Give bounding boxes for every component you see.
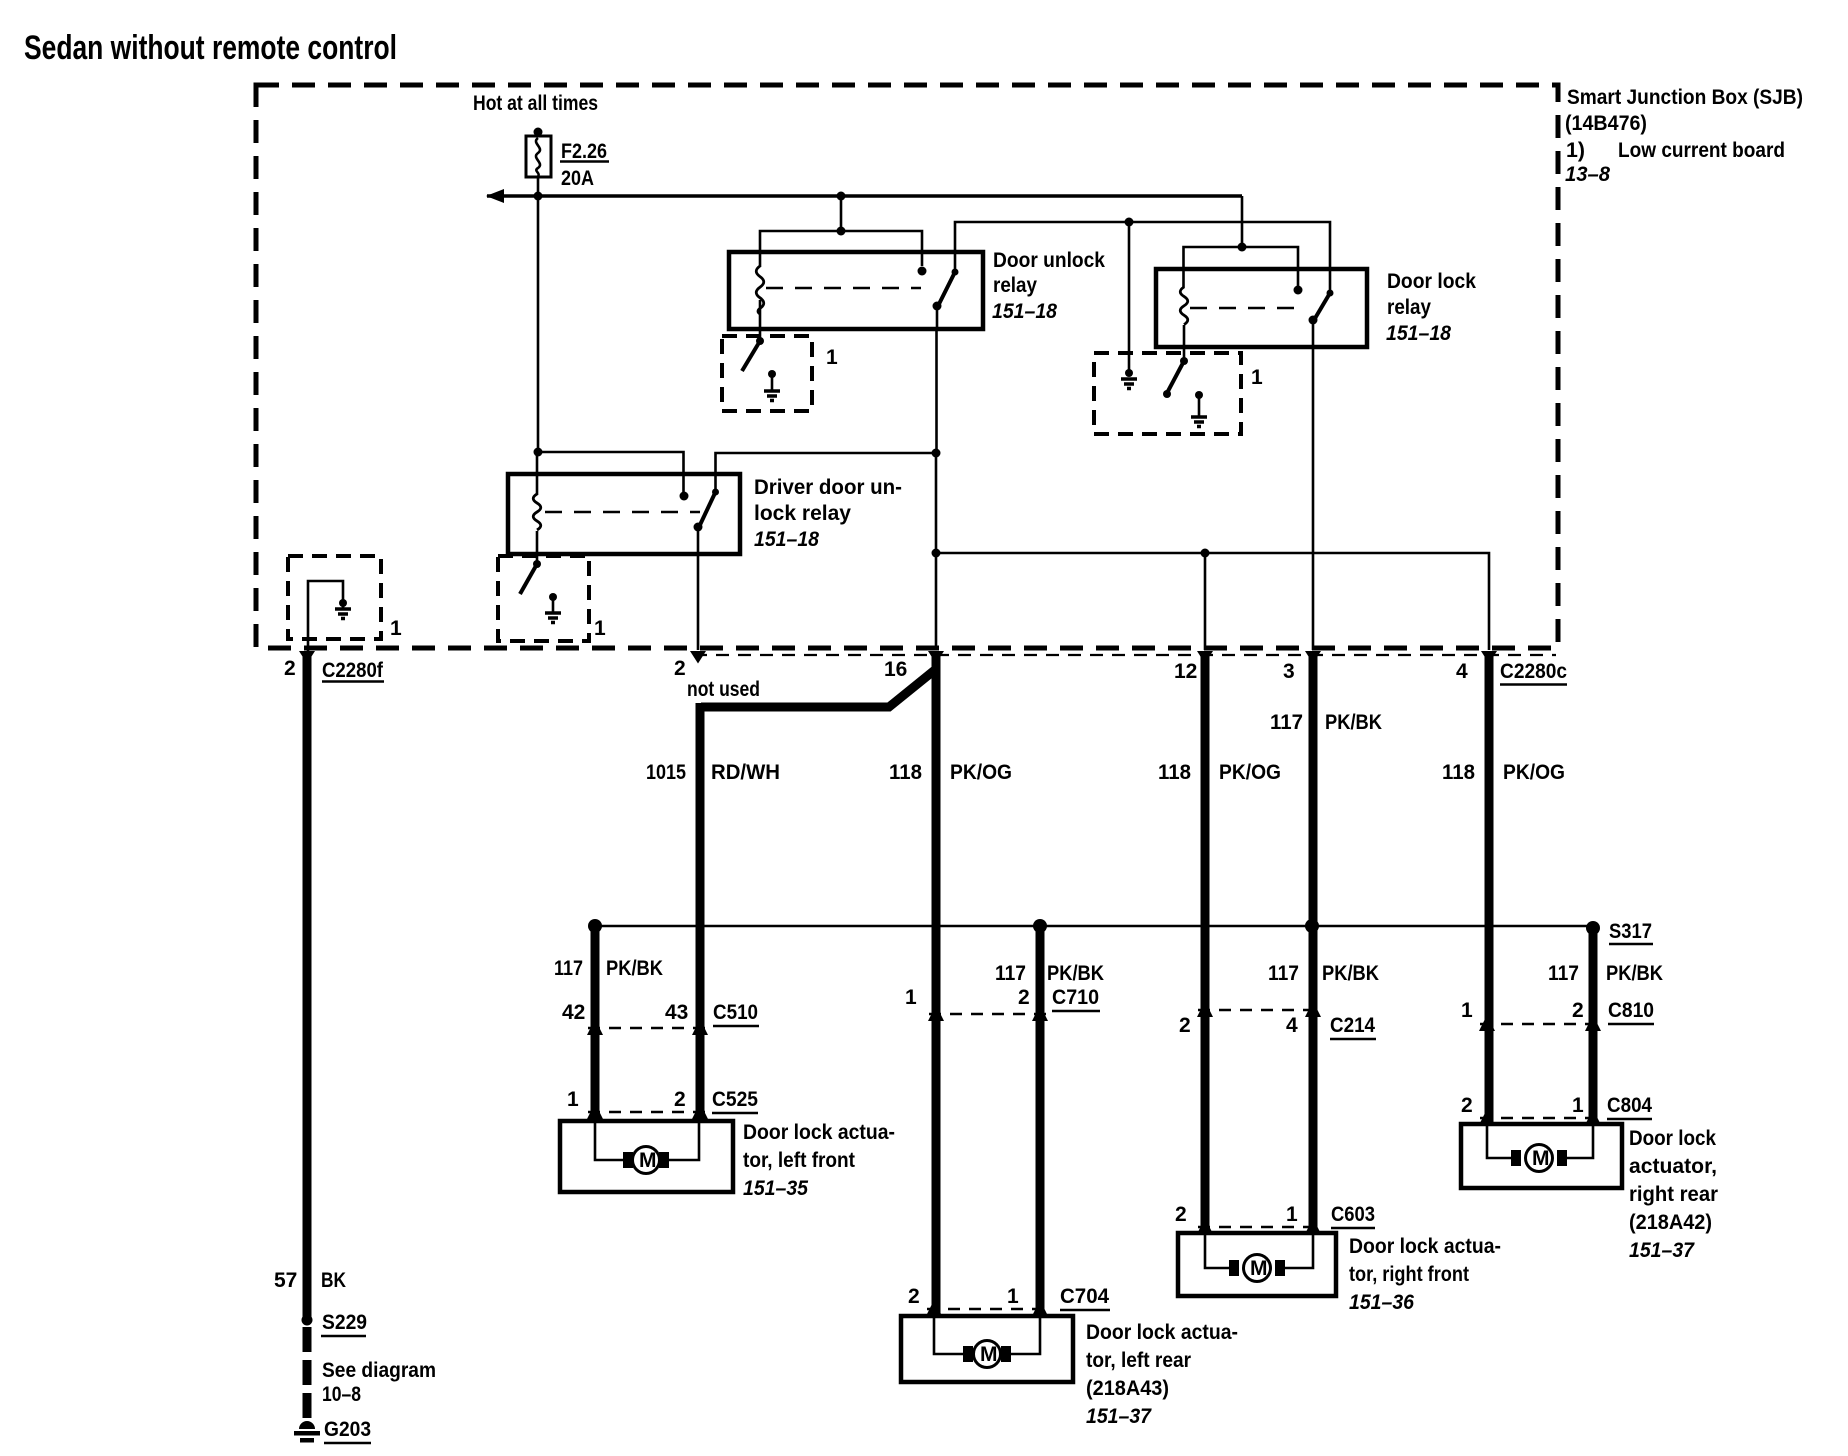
- label: 117 PK/BK (C214 leg): [1268, 962, 1379, 985]
- unlock relay fixed contact: [918, 267, 927, 276]
- svg-text:not used: not used: [687, 678, 760, 701]
- svg-text:BK: BK: [321, 1269, 346, 1292]
- svg-text:1: 1: [905, 986, 917, 1009]
- ground contact in box 1 (unlock): [764, 370, 780, 401]
- svg-text:57: 57: [274, 1269, 297, 1292]
- label: 1 (driver box): [594, 617, 606, 640]
- svg-text:G203: G203: [324, 1418, 371, 1441]
- actuator: Door lock actuator right rear: [1461, 1124, 1622, 1188]
- label: S317: [1609, 920, 1653, 944]
- wire: B+ bus from fuse, arrow to left: [486, 189, 1242, 203]
- label: 1 (unlock box): [826, 346, 838, 369]
- lock relay switch arm: [1309, 290, 1334, 325]
- driver relay switch arm: [694, 489, 720, 532]
- svg-text:13–8: 13–8: [1565, 163, 1610, 186]
- wire: fuse feed down to driver relay: [537, 196, 540, 452]
- label: Door lock relay 151-18: [1386, 270, 1476, 345]
- svg-text:1015: 1015: [646, 761, 686, 784]
- svg-text:relay: relay: [993, 274, 1037, 297]
- dashed box 1 under lock relay: [1094, 353, 1241, 434]
- junction pin16 net corner: [932, 449, 941, 458]
- svg-text:Door lock: Door lock: [1629, 1127, 1716, 1150]
- svg-text:Hot at all times: Hot at all times: [473, 92, 598, 115]
- svg-text:151–18: 151–18: [754, 528, 819, 551]
- svg-text:tor, left rear: tor, left rear: [1086, 1349, 1191, 1372]
- svg-text:4: 4: [1286, 1014, 1298, 1037]
- svg-text:2: 2: [284, 657, 296, 680]
- junction splice at wire G: [1305, 919, 1319, 933]
- wire: 118 PK/OG pin 12 down to right front actuator: [1201, 655, 1210, 1233]
- coil of door lock relay: [1180, 287, 1188, 325]
- svg-text:PK/BK: PK/BK: [1322, 962, 1379, 985]
- svg-text:118: 118: [1158, 761, 1191, 784]
- wire: lock coil return into low-current-board box: [1183, 325, 1186, 361]
- label: 118 PK/OG (pin 12 wire): [1158, 761, 1281, 784]
- svg-text:(14B476): (14B476): [1565, 112, 1647, 135]
- wire: unlock relay switch common down: [935, 329, 938, 453]
- wire: unlock arm-top to lock relay top contact net: [955, 222, 1330, 291]
- coil of driver door unlock relay: [533, 494, 541, 530]
- svg-text:20A: 20A: [561, 167, 594, 190]
- svg-text:Door lock actua-: Door lock actua-: [743, 1121, 895, 1144]
- svg-text:tor, left front: tor, left front: [743, 1149, 855, 1172]
- svg-text:10–8: 10–8: [322, 1383, 361, 1406]
- pin 3 arrow: [1305, 651, 1321, 664]
- pin 2 C2280f arrow: [299, 651, 315, 664]
- label: 117 PK/BK (C710 leg): [995, 962, 1104, 985]
- label: pin 4: [1456, 660, 1468, 683]
- label: F2.26 / 20A: [560, 140, 609, 190]
- svg-text:PK/BK: PK/BK: [606, 957, 663, 980]
- label: 117 PK/BK (pin 3 wire): [1270, 711, 1382, 734]
- svg-text:4: 4: [1456, 660, 1468, 683]
- junction pin12 tap: [1201, 549, 1210, 558]
- svg-text:S229: S229: [322, 1311, 367, 1334]
- lock relay fixed contact: [1294, 286, 1303, 295]
- svg-text:117: 117: [1268, 962, 1299, 985]
- label: 1 (lock box): [1251, 366, 1263, 389]
- wire: ground tap down into dashed box: [1128, 222, 1131, 371]
- svg-text:PK/OG: PK/OG: [1219, 761, 1281, 784]
- Smart Junction Box SJB dashed enclosure: [256, 85, 1558, 648]
- wire: 1015 RD/WH dogleg from pin 16: [700, 669, 936, 1121]
- svg-text:C214: C214: [1330, 1014, 1375, 1037]
- svg-text:Door lock actua-: Door lock actua-: [1086, 1321, 1238, 1344]
- junction on unlock coil feed line: [837, 227, 846, 236]
- wire: pin 12 drop: [1204, 553, 1207, 650]
- svg-text:C525: C525: [712, 1088, 758, 1111]
- junction at y553: [932, 549, 941, 558]
- wire: lock relay common down to pin 3: [1312, 320, 1315, 650]
- ground contact in left box: [335, 599, 351, 619]
- svg-text:M: M: [1532, 1147, 1550, 1170]
- junction splice S317: [1586, 921, 1600, 935]
- svg-text:Smart Junction Box (SJB): Smart Junction Box (SJB): [1567, 86, 1803, 109]
- svg-text:C804: C804: [1607, 1094, 1652, 1117]
- wire: 118 PK/OG pin 16 down to left rear actuator: [932, 655, 941, 1316]
- wire: tap down to unlock relay coil feed: [840, 196, 843, 231]
- connector C704: [908, 1285, 1110, 1316]
- svg-text:C603: C603: [1331, 1203, 1375, 1226]
- ground contact in driver box: [545, 593, 561, 623]
- svg-text:M: M: [639, 1149, 657, 1172]
- svg-text:PK/BK: PK/BK: [1325, 711, 1382, 734]
- svg-text:C810: C810: [1608, 999, 1654, 1022]
- label: Door lock actuator right rear (218A42) 151-37: [1629, 1127, 1718, 1262]
- svg-text:1: 1: [1007, 1285, 1019, 1308]
- svg-text:1: 1: [594, 617, 606, 640]
- svg-text:117: 117: [554, 957, 583, 980]
- switch in box 1 (unlock): [742, 337, 764, 371]
- splice line S317 net: [595, 925, 1593, 927]
- label: 1 (left box): [390, 617, 402, 640]
- svg-text:1): 1): [1566, 139, 1585, 162]
- junction fuse feed / driver relay: [534, 448, 543, 457]
- dashed actuation line in unlock relay: [766, 287, 921, 290]
- label: Driver door un-lock relay 151-18: [754, 476, 902, 551]
- wire: bus corner down to lock relay feed line: [1241, 196, 1244, 247]
- junction bus corner on y247: [1238, 243, 1247, 252]
- switch in driver box: [520, 560, 541, 594]
- svg-text:1: 1: [567, 1088, 579, 1111]
- svg-text:2: 2: [1175, 1203, 1187, 1226]
- svg-text:Low current board: Low current board: [1618, 139, 1785, 162]
- svg-text:151–37: 151–37: [1086, 1405, 1152, 1428]
- svg-text:Door lock: Door lock: [1387, 270, 1476, 293]
- svg-text:Driver door un-: Driver door un-: [754, 476, 902, 499]
- label: C2280c: [1500, 660, 1567, 685]
- svg-text:RD/WH: RD/WH: [711, 761, 780, 784]
- wire: 117 PK/BK pin 3 down to right front actuator: [1309, 655, 1318, 1233]
- splice S229: [302, 1311, 368, 1336]
- svg-text:PK/BK: PK/BK: [1606, 962, 1663, 985]
- relay: Door unlock relay box: [729, 252, 983, 329]
- label: Door lock actuator left front 151-35: [743, 1121, 895, 1200]
- svg-text:M: M: [980, 1343, 998, 1366]
- svg-text:C2280f: C2280f: [322, 659, 384, 682]
- svg-text:right rear: right rear: [1629, 1183, 1718, 1206]
- junction at fuse/bus: [534, 192, 543, 201]
- wire: 118 feed line to pins 12 and 4: [936, 553, 1489, 650]
- title: Sedan without remote control: [24, 29, 397, 67]
- svg-text:117: 117: [1270, 711, 1303, 734]
- svg-text:3: 3: [1283, 660, 1295, 683]
- label: pin 12: [1174, 660, 1197, 683]
- label: Door lock actuator left rear (218A43) 151-37: [1086, 1321, 1238, 1428]
- svg-text:Sedan without remote control: Sedan without remote control: [24, 29, 397, 67]
- connector C810: [1461, 999, 1654, 1031]
- actuator: Door lock actuator right front: [1178, 1233, 1336, 1296]
- dashed box 1 under driver relay: [498, 556, 589, 641]
- pin 12 arrow: [1197, 651, 1213, 664]
- label: 1015 RD/WH: [646, 761, 780, 784]
- svg-text:C710: C710: [1052, 986, 1099, 1009]
- svg-text:S317: S317: [1609, 920, 1652, 943]
- svg-text:1: 1: [1461, 999, 1473, 1022]
- pin 16 arrow: [928, 651, 944, 664]
- switch in lock box: [1163, 357, 1188, 398]
- wire: unlock coil return into low-current-board box: [759, 300, 762, 341]
- wire: driver relay common down to pin 2 not used: [697, 527, 700, 650]
- label: 118 PK/OG (pin 4 wire): [1442, 761, 1565, 784]
- label: pin 2 / C2280f: [284, 657, 384, 682]
- wire: lock relay feed line y247: [1184, 247, 1299, 288]
- svg-text:tor, right front: tor, right front: [1349, 1263, 1469, 1286]
- svg-text:1: 1: [1572, 1094, 1584, 1117]
- pin 4 arrow: [1481, 651, 1497, 664]
- svg-text:151–35: 151–35: [743, 1177, 808, 1200]
- coil of door unlock relay: [756, 266, 764, 314]
- wire: unlock relay coil+contact feed line: [760, 231, 922, 267]
- svg-text:117: 117: [995, 962, 1026, 985]
- wire: 117 PK/BK leg at C710 (left rear): [1036, 926, 1045, 1316]
- junction ground tap on 222 net: [1125, 218, 1134, 227]
- unlock relay switch arm: [933, 269, 959, 331]
- wire: driver coil return into box: [536, 531, 539, 564]
- actuator: Door lock actuator left rear: [901, 1316, 1073, 1382]
- fuse F2.26 20A: [526, 128, 551, 197]
- label: 57 BK: [274, 1269, 346, 1292]
- wire: dashed to G203: [303, 1327, 312, 1419]
- connector C510: [562, 1001, 759, 1035]
- connector C603: [1175, 1203, 1375, 1234]
- svg-text:43: 43: [665, 1001, 688, 1024]
- svg-text:2: 2: [674, 657, 686, 680]
- connector C525: [567, 1088, 758, 1119]
- label: Door lock actuator right front 151-36: [1349, 1235, 1501, 1314]
- svg-text:118: 118: [889, 761, 922, 784]
- label: pin 3: [1283, 660, 1295, 683]
- svg-text:M: M: [1250, 1257, 1268, 1280]
- svg-text:118: 118: [1442, 761, 1475, 784]
- ground contact in lock box (right): [1191, 391, 1207, 427]
- svg-text:See diagram: See diagram: [322, 1359, 436, 1382]
- svg-text:C704: C704: [1060, 1285, 1109, 1308]
- relay: Driver door unlock relay box: [508, 474, 740, 554]
- svg-text:16: 16: [884, 658, 907, 681]
- connector C2280c dashed line under SJB: [694, 654, 1556, 656]
- svg-text:151–18: 151–18: [1386, 322, 1451, 345]
- wire: 57 BK ground wire from pin 2 C2280f: [303, 653, 312, 1317]
- svg-text:Door lock actua-: Door lock actua-: [1349, 1235, 1501, 1258]
- svg-text:151–18: 151–18: [992, 300, 1057, 323]
- relay: Door lock relay box: [1156, 269, 1367, 347]
- svg-text:actuator,: actuator,: [1629, 1155, 1717, 1178]
- pin 2 not used arrow: [690, 651, 706, 664]
- label: pin 2 not used: [674, 657, 760, 701]
- label: Door unlock relay 151-18: [992, 249, 1105, 323]
- svg-text:1: 1: [826, 346, 838, 369]
- junction splice at wire E: [1033, 919, 1047, 933]
- dashed actuation line in driver relay: [545, 511, 700, 514]
- svg-text:12: 12: [1174, 660, 1197, 683]
- connector C804: [1461, 1094, 1652, 1125]
- actuator: Door lock actuator left front: [560, 1121, 733, 1192]
- driver relay fixed contact: [680, 492, 689, 501]
- label: pin 16: [884, 658, 907, 681]
- wire: 117 PK/BK S317 leg (right rear): [1589, 928, 1598, 1124]
- svg-text:PK/OG: PK/OG: [1503, 761, 1565, 784]
- svg-text:1: 1: [1286, 1203, 1298, 1226]
- svg-text:2: 2: [1461, 1094, 1473, 1117]
- junction bus/coil-feed tap: [837, 192, 846, 201]
- wire: 117 PK/BK leg at C510 (left front): [591, 926, 600, 1121]
- svg-text:(218A42): (218A42): [1629, 1211, 1712, 1234]
- ground G203: [294, 1418, 371, 1443]
- svg-text:2: 2: [908, 1285, 920, 1308]
- svg-text:relay: relay: [1387, 296, 1431, 319]
- wire: driver coil top lead: [536, 452, 539, 495]
- label: 118 PK/OG (pin 16 wire): [889, 761, 1012, 784]
- ground in lock box (left, from 222 net): [1121, 369, 1137, 389]
- svg-text:C2280c: C2280c: [1500, 660, 1567, 683]
- svg-text:F2.26: F2.26: [561, 140, 607, 163]
- svg-text:lock relay: lock relay: [754, 502, 851, 525]
- connector C214: [1179, 1001, 1376, 1039]
- label: 117 PK/BK (C810 leg): [1548, 962, 1663, 985]
- label: See diagram 10-8: [322, 1359, 436, 1406]
- wire: vertical pin16 feed: [935, 453, 938, 650]
- wire: driver relay fixed contact feed: [538, 452, 684, 492]
- svg-text:PK/OG: PK/OG: [950, 761, 1012, 784]
- svg-text:2: 2: [1572, 999, 1584, 1022]
- svg-text:2: 2: [674, 1088, 686, 1111]
- label: Smart Junction Box (SJB) (14B476) 1) Low current board 13-8: [1565, 86, 1803, 186]
- label: Hot at all times: [473, 92, 598, 115]
- svg-text:1: 1: [1251, 366, 1263, 389]
- wire: 118 PK/OG pin 4 down to right rear actuator: [1485, 655, 1494, 1124]
- svg-text:42: 42: [562, 1001, 585, 1024]
- dashed box 1 under unlock relay: [722, 336, 812, 411]
- jumper staple to ground in left box: [308, 581, 343, 652]
- svg-text:PK/BK: PK/BK: [1047, 962, 1104, 985]
- junction splice at wire B: [588, 919, 602, 933]
- svg-text:2: 2: [1018, 986, 1030, 1009]
- connector C710: [905, 986, 1100, 1021]
- svg-text:C510: C510: [713, 1001, 758, 1024]
- svg-text:2: 2: [1179, 1014, 1191, 1037]
- wire: driver relay arm top to pin16 net: [716, 453, 937, 490]
- dashed actuation line in lock relay: [1190, 307, 1305, 310]
- svg-text:151–37: 151–37: [1629, 1239, 1695, 1262]
- dashed box 1 at SJB bottom-left (ground jumper): [288, 556, 381, 639]
- svg-text:151–36: 151–36: [1349, 1291, 1414, 1314]
- svg-text:(218A43): (218A43): [1086, 1377, 1169, 1400]
- svg-text:117: 117: [1548, 962, 1579, 985]
- svg-text:Door unlock: Door unlock: [993, 249, 1105, 272]
- svg-text:1: 1: [390, 617, 402, 640]
- label: 117 PK/BK (C510 leg): [554, 957, 663, 980]
